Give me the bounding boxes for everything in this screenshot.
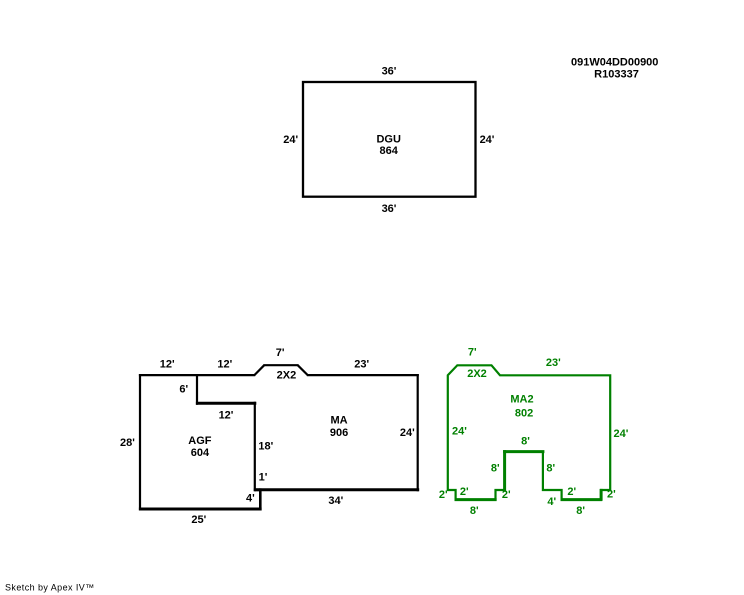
svg-text:8': 8' [576,505,585,517]
MA2 thick wire right notch 2' vertical [600,489,603,501]
svg-text:2': 2' [460,486,469,498]
svg-text:Sketch by Apex IV™: Sketch by Apex IV™ [5,583,95,593]
svg-text:12': 12' [160,359,175,371]
svg-text:604: 604 [191,447,210,459]
svg-text:864: 864 [380,145,399,157]
wire 18' vertical [254,402,256,491]
DGU outline [303,82,476,197]
wire 1' jog [254,488,260,491]
svg-text:4': 4' [246,493,255,505]
wire 12' interior thick [196,402,256,405]
svg-text:2': 2' [439,489,448,501]
svg-text:R103337: R103337 [594,68,639,80]
wire MA right 24' [417,374,419,491]
svg-text:8': 8' [491,463,500,475]
svg-text:8': 8' [521,436,530,448]
svg-text:6': 6' [179,384,188,396]
wire MA bump right diagonal [298,365,308,375]
wire MA top 12' [197,374,255,376]
svg-text:24': 24' [283,134,298,146]
wire MA bump top 7' [263,364,298,366]
svg-text:24': 24' [452,426,467,438]
svg-text:2X2: 2X2 [277,370,297,382]
wire AGF top 12' [139,374,198,376]
svg-text:24': 24' [400,427,415,439]
svg-text:28': 28' [120,437,135,449]
MA2 thick wire bottom-right 8' [561,498,603,501]
wire 4' vertical [259,488,262,510]
svg-text:25': 25' [191,514,206,526]
svg-text:MA: MA [330,415,347,427]
svg-text:8': 8' [470,505,479,517]
svg-text:23': 23' [354,358,369,370]
svg-text:4': 4' [547,496,556,508]
MA2 thick wire bump left 8' [503,450,506,491]
svg-text:091W04DD00900: 091W04DD00900 [571,56,658,68]
wire 6' vertical [196,375,198,405]
svg-text:18': 18' [258,441,273,453]
MA2 thick wire bottom-left 8' [455,498,497,501]
svg-text:1': 1' [259,471,268,483]
svg-text:906: 906 [330,427,348,439]
svg-text:DGU: DGU [376,134,401,146]
svg-text:24': 24' [480,134,495,146]
svg-text:AGF: AGF [188,435,212,447]
wire MA bump left diagonal [254,365,264,375]
svg-text:23': 23' [546,357,561,369]
svg-text:36': 36' [382,65,397,77]
wire AGF left 28' [139,374,141,510]
svg-text:36': 36' [382,203,397,215]
svg-text:24': 24' [613,428,628,440]
svg-text:7': 7' [276,347,285,359]
svg-text:2': 2' [502,489,511,501]
svg-text:2': 2' [567,486,576,498]
svg-text:8': 8' [546,463,555,475]
MA2 green outline [448,365,610,499]
wire MA bottom 34' thick [255,488,419,491]
svg-text:34': 34' [328,495,343,507]
svg-text:12': 12' [217,359,232,371]
svg-text:2': 2' [607,489,616,501]
svg-text:MA2: MA2 [510,394,533,406]
svg-text:2X2: 2X2 [467,368,487,380]
wire AGF bottom 25' thick [139,508,262,511]
wire MA top 23' [307,374,419,376]
svg-text:802: 802 [515,408,533,420]
svg-text:7': 7' [468,347,477,359]
MA2 thick wire bump top 8' [503,450,544,453]
svg-text:12': 12' [219,410,234,422]
